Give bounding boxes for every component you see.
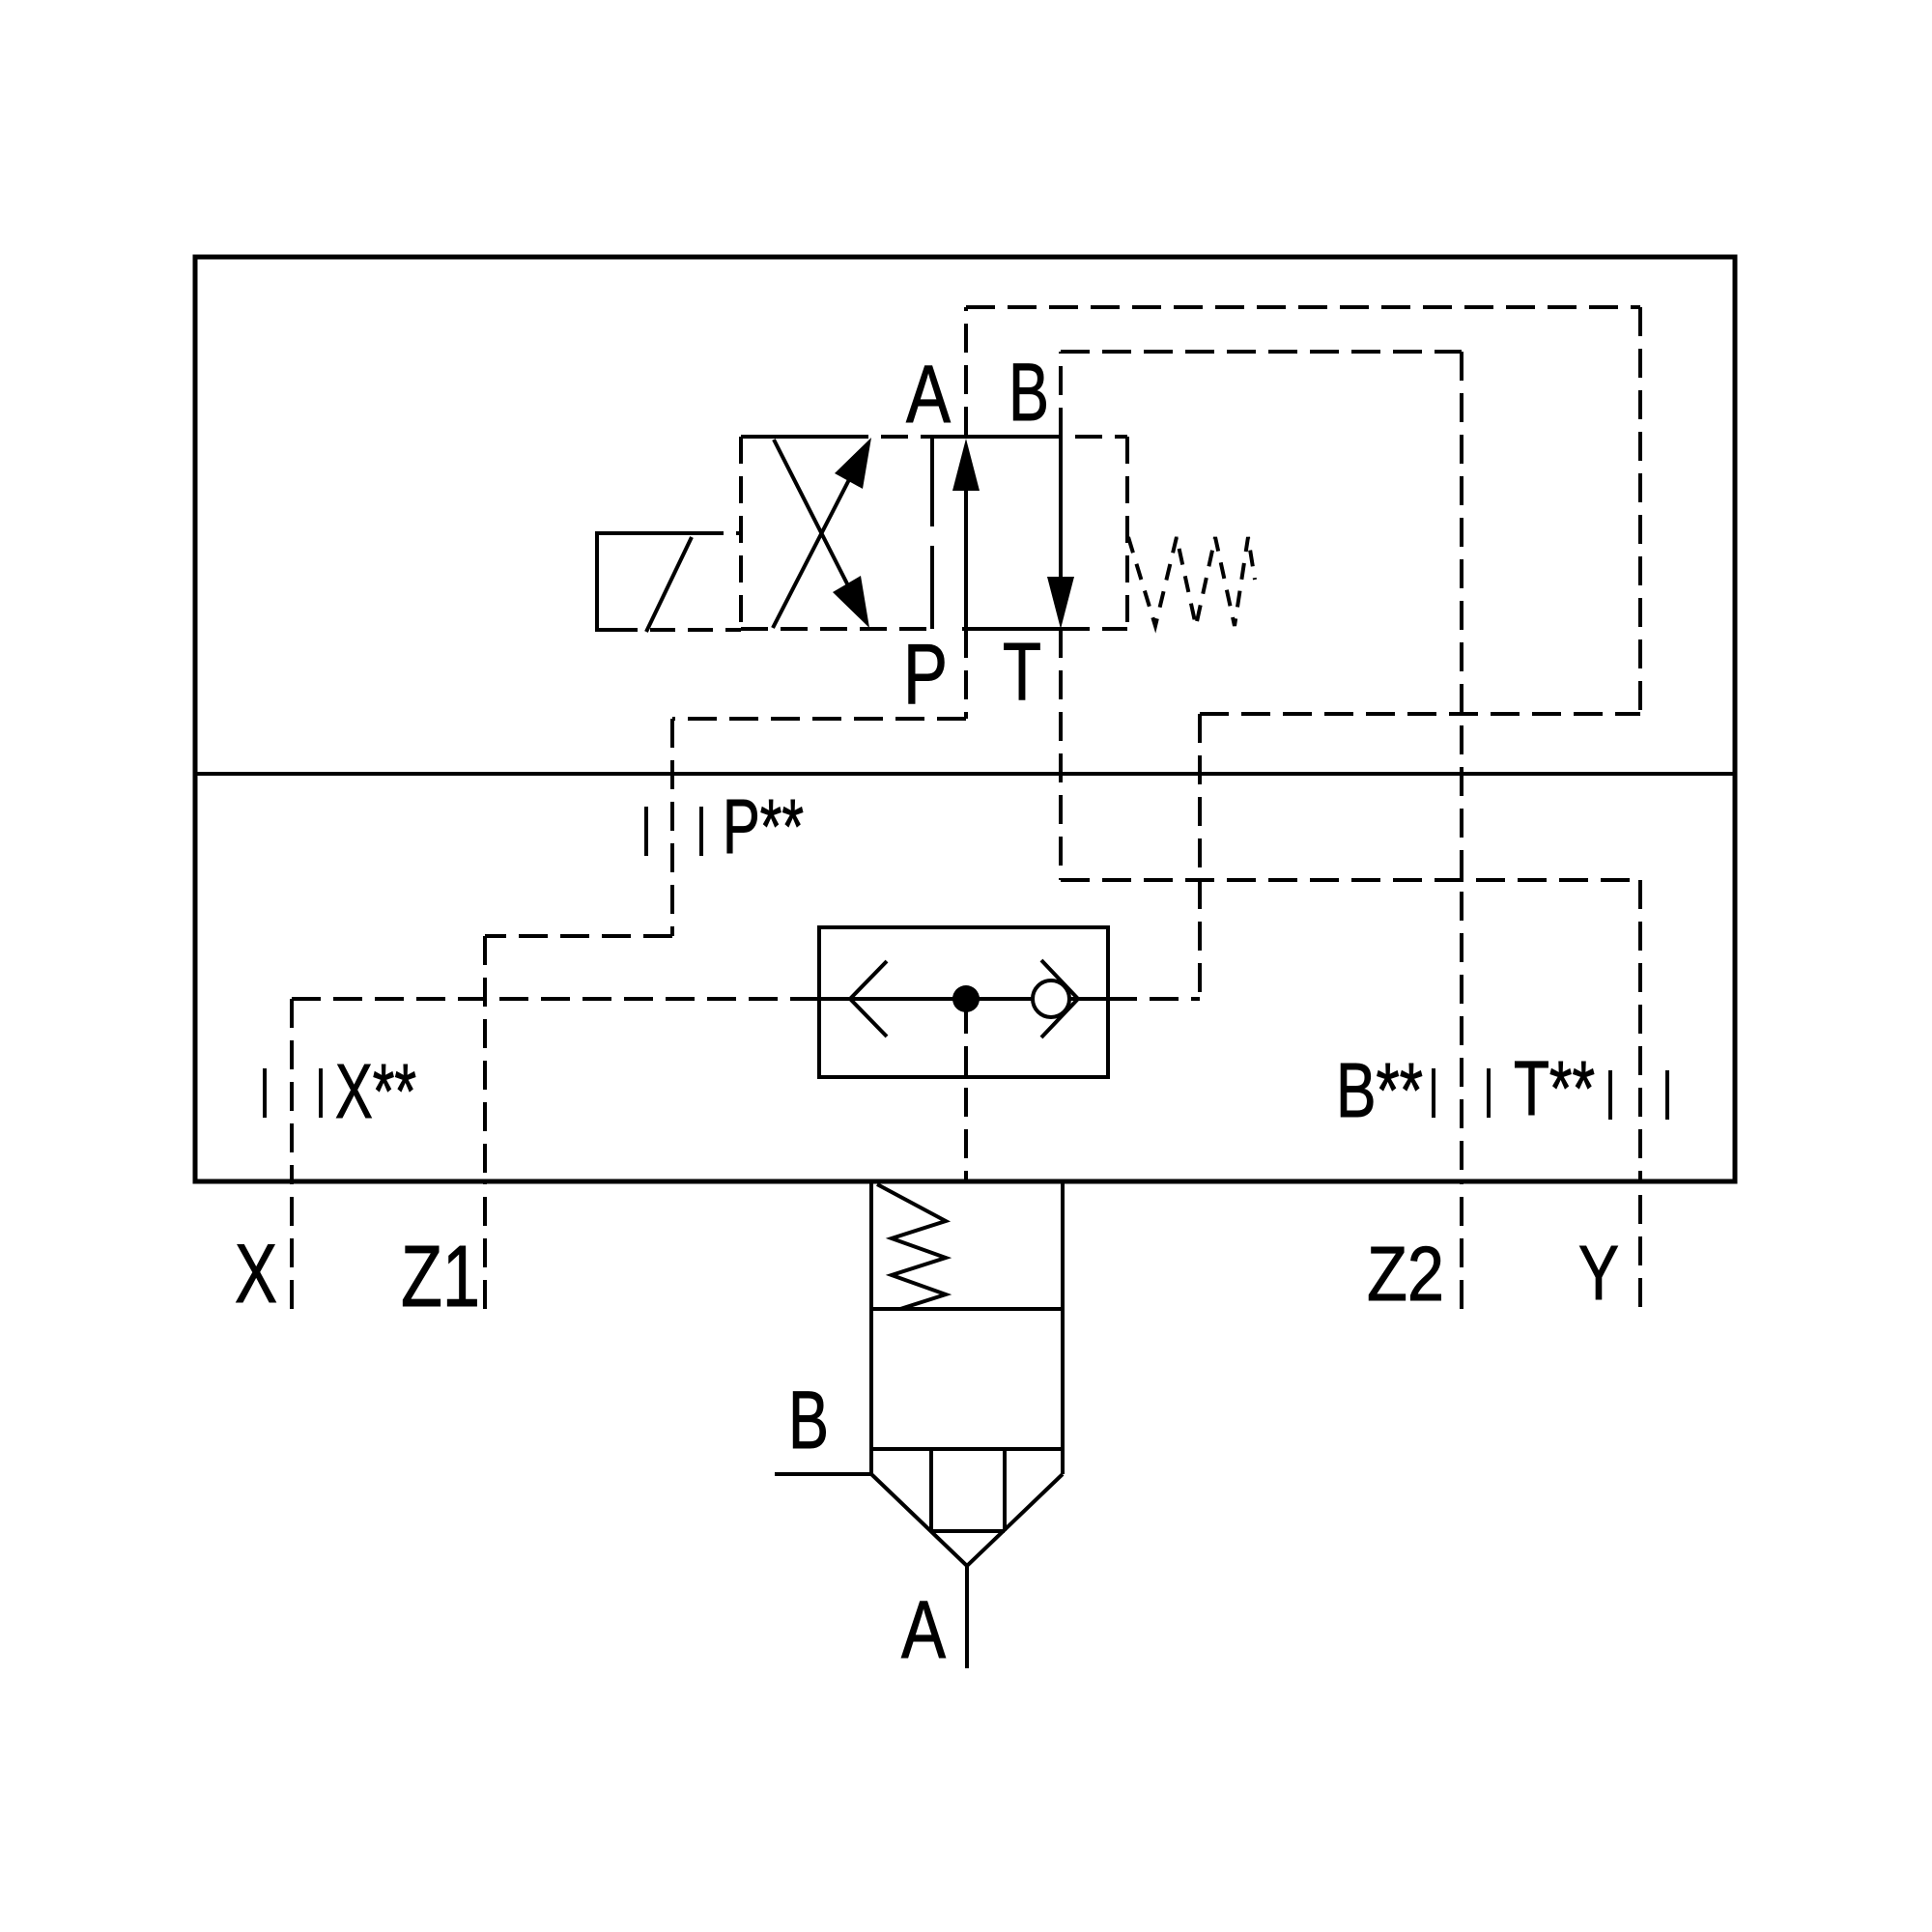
plug ticks B** Z2: [1434, 1068, 1489, 1118]
pilot valve U1 left position box (dashed envelope): [741, 437, 932, 629]
arrow B to T: [1059, 437, 1063, 582]
svg-text:T**: T**: [1514, 1045, 1595, 1131]
check valve centerline: [819, 997, 1108, 1001]
check valve right seat: [1041, 960, 1078, 1037]
svg-text:B**: B**: [1336, 1047, 1423, 1133]
valve spring (dashed zigzag): [1128, 537, 1255, 626]
svg-text:A: A: [906, 349, 951, 440]
svg-text:Z2: Z2: [1367, 1231, 1444, 1317]
manifold block outline: [195, 257, 1735, 1181]
check valve V1 box: [819, 927, 1108, 1077]
svg-text:X: X: [235, 1228, 277, 1321]
pilot line P to Z1 (dashed): [485, 629, 966, 1309]
cartridge poppet seat: [871, 1449, 1063, 1566]
port A stub: [965, 1566, 969, 1668]
plug ticks X**: [265, 1068, 321, 1118]
arrow P to A: [964, 485, 968, 629]
svg-text:T: T: [1003, 626, 1041, 717]
arrowhead crossed down-right: [833, 576, 869, 628]
port B stub: [775, 1472, 871, 1476]
pilot valve position divider: [930, 437, 934, 629]
arrowhead B-T: [1047, 577, 1074, 629]
check valve ball: [1033, 980, 1069, 1017]
svg-text:Y: Y: [1578, 1230, 1619, 1316]
pilot valve left box top solid start: [741, 435, 841, 439]
plug ticks T** Y: [1610, 1070, 1667, 1120]
pilot line A to check valve (dashed): [966, 307, 1640, 999]
pilot line T to Y (dashed): [1061, 629, 1640, 1307]
svg-text:Z1: Z1: [401, 1229, 480, 1325]
crossed arrow A-T: [774, 440, 857, 603]
block divider line: [195, 772, 1735, 776]
check valve pilot dot: [952, 985, 980, 1012]
port X line (dashed): [292, 999, 819, 1309]
cartridge spring: [877, 1184, 946, 1309]
check valve to cartridge pilot (dashed): [964, 1005, 968, 1181]
plug ticks P**: [646, 807, 701, 856]
svg-text:A: A: [901, 1584, 946, 1675]
crossed arrow P-B: [773, 465, 857, 628]
solenoid Y1: [597, 533, 698, 632]
svg-text:X**: X**: [335, 1048, 416, 1134]
svg-text:B: B: [788, 1375, 829, 1465]
svg-text:P: P: [903, 626, 948, 722]
svg-text:P**: P**: [723, 783, 804, 869]
svg-text:B: B: [1009, 347, 1049, 438]
pilot line B to Z2 (dashed): [1061, 352, 1462, 1309]
arrowhead P-A: [952, 439, 980, 491]
arrowhead crossed up-right: [835, 438, 871, 489]
pilot valve right position box: [925, 435, 1036, 439]
check valve left seat: [850, 961, 887, 1037]
cartridge valve body: [871, 1181, 1063, 1474]
